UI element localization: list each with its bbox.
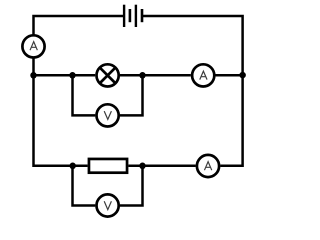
- node dot left-middle junction: [30, 72, 37, 79]
- ammeter A1: [22, 35, 44, 57]
- wire top-left bus and drop to A1: [34, 16, 125, 35]
- voltmeter V1: [97, 104, 119, 126]
- wire A1 to node A: [32, 58, 35, 75]
- ammeter A2: [192, 64, 214, 86]
- wire resistor to ammeter A3: [128, 165, 195, 168]
- node dot resistor-branch right: [139, 163, 146, 170]
- resistor R1: [89, 159, 127, 173]
- wire middle row left to lamp: [34, 74, 96, 77]
- node dot right-middle junction: [239, 72, 246, 79]
- wire voltmeter V2 branch right: [120, 166, 143, 206]
- node dot lamp-branch left: [69, 72, 76, 79]
- wire A2 to right bus: [216, 74, 243, 77]
- wire top-right bus down right side to A3: [143, 16, 243, 166]
- wire voltmeter V2 branch left: [73, 166, 96, 206]
- node dot lamp-branch right: [139, 72, 146, 79]
- node dot resistor-branch left: [69, 163, 76, 170]
- wire left vertical down to bottom row and to resistor: [34, 75, 88, 166]
- ammeter A3: [197, 155, 219, 177]
- battery B1: [124, 5, 142, 27]
- wire voltmeter V1 branch left: [73, 75, 96, 115]
- wire lamp to ammeter A2: [120, 74, 191, 77]
- lamp L1: [97, 64, 119, 86]
- wire voltmeter V1 branch right: [120, 75, 143, 115]
- voltmeter V2: [97, 194, 119, 216]
